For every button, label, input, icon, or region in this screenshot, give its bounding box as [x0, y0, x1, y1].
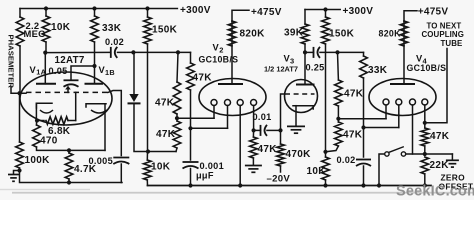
svg-text:+300V: +300V	[343, 6, 374, 17]
svg-text:820K: 820K	[240, 29, 266, 40]
svg-text:820K: 820K	[379, 28, 402, 38]
svg-text:SeekIC.com: SeekIC.com	[396, 184, 474, 200]
svg-text:GC10B/S: GC10B/S	[407, 63, 447, 73]
svg-text:33K: 33K	[102, 23, 122, 34]
svg-text:0.005: 0.005	[89, 156, 114, 166]
svg-text:1/2 12AT7: 1/2 12AT7	[264, 64, 298, 73]
svg-text:0.05: 0.05	[49, 66, 68, 76]
svg-text:47K: 47K	[193, 73, 213, 84]
svg-text:10K: 10K	[151, 162, 171, 173]
svg-text:22K: 22K	[430, 160, 450, 171]
svg-text:47K: 47K	[343, 130, 363, 141]
svg-text:10K: 10K	[307, 166, 327, 177]
svg-text:–20V: –20V	[267, 174, 291, 185]
svg-text:1A: 1A	[36, 68, 46, 77]
svg-text:+475V: +475V	[251, 7, 282, 18]
svg-text:0.25: 0.25	[306, 63, 325, 73]
svg-text:1B: 1B	[105, 68, 115, 77]
svg-text:150K: 150K	[329, 29, 355, 40]
svg-text:470K: 470K	[286, 149, 312, 160]
svg-text:39K: 39K	[284, 27, 304, 38]
svg-text:0.001: 0.001	[200, 161, 225, 171]
svg-text:150K: 150K	[152, 25, 178, 36]
svg-text:2: 2	[219, 46, 223, 55]
svg-text:100K: 100K	[25, 155, 51, 166]
svg-text:47K: 47K	[430, 131, 450, 142]
svg-text:12AT7: 12AT7	[55, 55, 85, 66]
svg-text:47K: 47K	[344, 89, 364, 100]
svg-text:47K: 47K	[258, 144, 278, 155]
svg-text:0.01: 0.01	[253, 112, 272, 122]
svg-text:μμF: μμF	[196, 171, 214, 181]
svg-text:TUBE: TUBE	[441, 39, 463, 48]
svg-text:0.02: 0.02	[337, 155, 356, 165]
svg-text:+300V: +300V	[180, 5, 211, 16]
svg-text:0.02: 0.02	[105, 37, 124, 47]
svg-text:47K: 47K	[156, 129, 176, 140]
svg-text:GC10B/S: GC10B/S	[199, 54, 239, 64]
svg-text:10K: 10K	[51, 22, 71, 33]
svg-text:470: 470	[40, 136, 58, 147]
svg-text:+475V: +475V	[418, 6, 449, 17]
svg-text:PHASEMETER: PHASEMETER	[6, 35, 15, 89]
svg-text:47K: 47K	[155, 98, 175, 109]
svg-text:33K: 33K	[368, 65, 388, 76]
svg-text:COUPLING: COUPLING	[422, 30, 464, 39]
